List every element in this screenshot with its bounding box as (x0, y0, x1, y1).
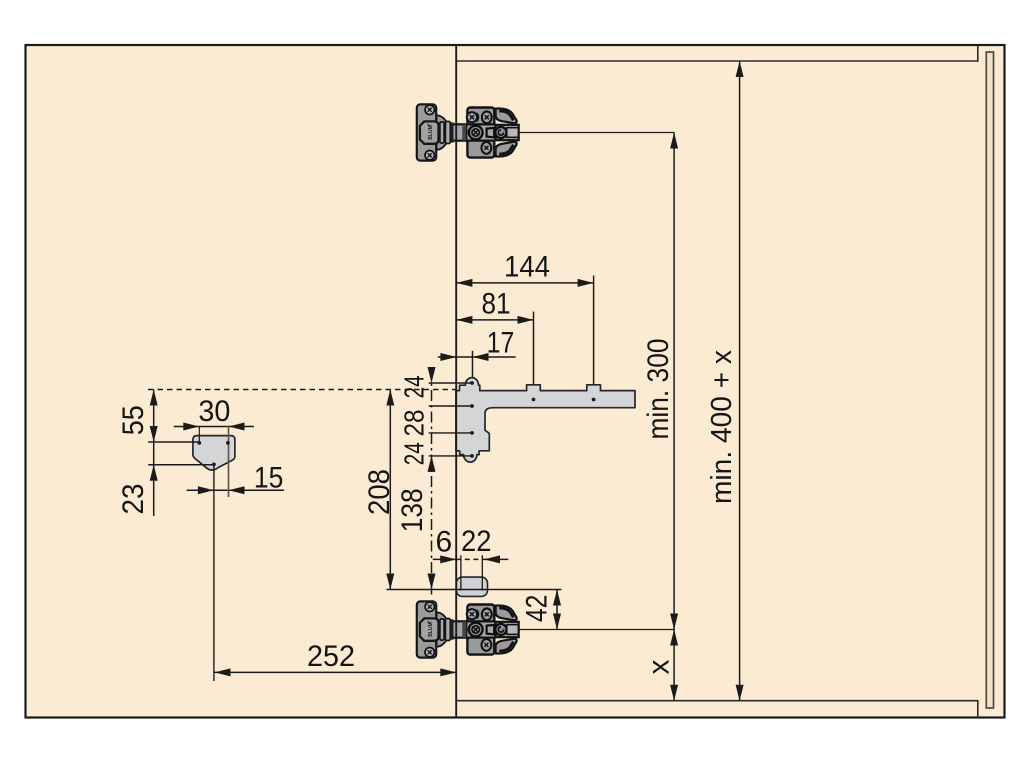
svg-text:22: 22 (461, 525, 492, 558)
svg-text:28: 28 (399, 410, 430, 437)
hinge (bottom) (417, 601, 519, 657)
dimension 15 (187, 489, 285, 491)
door edge line (455, 45, 457, 718)
svg-text:x: x (643, 660, 676, 675)
svg-text:30: 30 (198, 395, 230, 428)
cover cap (456, 577, 487, 596)
dimension 144 (456, 276, 593, 400)
back panel groove (986, 52, 993, 708)
svg-text:24: 24 (399, 442, 430, 465)
svg-text:252: 252 (307, 640, 355, 673)
svg-text:42: 42 (521, 595, 554, 623)
dimension 208 (389, 390, 391, 590)
svg-text:24: 24 (399, 375, 430, 398)
svg-text:138: 138 (396, 488, 429, 532)
catch center extension (213, 464, 215, 681)
svg-text:144: 144 (504, 251, 550, 284)
svg-text:17: 17 (487, 327, 515, 360)
svg-text:15: 15 (254, 461, 284, 494)
cabinet top panel inner line (456, 45, 978, 61)
dimension 17 (438, 351, 516, 383)
dimension 252 (215, 671, 457, 673)
svg-text:6: 6 (435, 525, 452, 558)
svg-text:81: 81 (482, 288, 511, 321)
22 extension lines (460, 555, 462, 590)
dimension 55/23 line (153, 390, 155, 517)
svg-text:208: 208 (363, 469, 396, 515)
hinge arm cross-section profile (456, 378, 635, 462)
hinge (top) (417, 104, 519, 160)
svg-text:55: 55 (117, 405, 150, 435)
dimension 42 (556, 590, 558, 630)
helper line y=589.5 (387, 589, 562, 591)
cabinet bottom panel inner line (456, 701, 978, 718)
dimension stack 24/28/24 centerline (431, 369, 433, 598)
tick 55 (148, 441, 199, 443)
hinge centre lines (519, 132, 674, 134)
dimension 30 (174, 426, 254, 428)
svg-text:min. 400 + x: min. 400 + x (706, 350, 738, 504)
catch hole extension (228, 427, 230, 498)
svg-text:23: 23 (117, 484, 150, 515)
dimension 81 (456, 312, 533, 400)
catch piece (193, 436, 235, 470)
dimension x (673, 630, 675, 701)
dimension 6/22 (433, 558, 456, 560)
dashed reference line (148, 389, 456, 391)
svg-text:min. 300: min. 300 (642, 339, 675, 440)
stack tick lines (429, 383, 472, 456)
dimension min300 (673, 133, 675, 630)
dimension min400x (739, 61, 741, 701)
tick 23 (148, 464, 214, 466)
